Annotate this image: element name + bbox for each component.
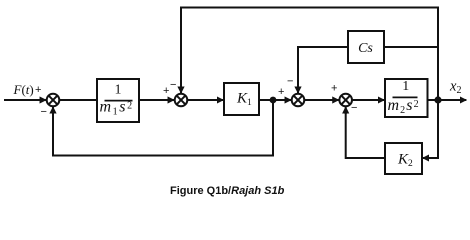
- svg-text:+: +: [331, 83, 337, 95]
- wire: arrow into S4 bottom: [345, 107, 347, 114]
- svg-text:1: 1: [115, 83, 122, 98]
- wire: Cs feedback left segment down into S3: [298, 47, 348, 90]
- wire: arrow into S1 bottom: [52, 107, 54, 114]
- node N2 (output): [434, 96, 441, 103]
- wire: outer feedback arrow into S2 top: [180, 86, 182, 93]
- svg-text:−: −: [41, 106, 47, 118]
- wire: outer feedback top horizontal: [181, 8, 438, 101]
- wire: input F(t) into summing junction S1: [4, 99, 46, 101]
- wire: m1s2 to summing junction S2: [139, 99, 174, 101]
- svg-text:+: +: [163, 85, 169, 97]
- wire: Cs feedback arrow into S3 top: [297, 86, 299, 93]
- svg-text:F(t): F(t): [13, 82, 34, 97]
- wire: inner feedback from node N1 down and left: [53, 100, 273, 156]
- svg-text:1: 1: [402, 79, 409, 94]
- wire: S4 to block m2s2: [353, 99, 385, 101]
- block m2s2: [385, 79, 428, 117]
- wire: S1 to block m1s2: [60, 99, 99, 101]
- svg-text:+: +: [278, 86, 284, 98]
- svg-text:−: −: [287, 76, 293, 88]
- node N1 (after K1): [270, 97, 277, 104]
- summing junction S4: [339, 94, 352, 107]
- summing junction S2: [175, 94, 188, 107]
- wire: arrow into K2 right edge: [423, 157, 430, 159]
- summing junction S3: [292, 94, 305, 107]
- svg-text:+: +: [35, 84, 41, 96]
- wire: output node N2 down to K2 row: [426, 100, 439, 158]
- wire: Cs feedback right segment from node vertical: [384, 46, 438, 48]
- svg-text:Cs: Cs: [358, 41, 373, 56]
- wire: K2 output up into S4 bottom: [346, 110, 385, 159]
- block K2: [385, 143, 422, 174]
- block m1s2: [97, 79, 139, 122]
- block Cs: [348, 31, 384, 63]
- svg-text:Figure Q1b/Rajah S1b: Figure Q1b/Rajah S1b: [170, 185, 285, 197]
- svg-text:−: −: [170, 79, 176, 91]
- wire: S2 to block K1: [188, 99, 224, 101]
- wire: S3 to summing junction S4: [305, 99, 339, 101]
- summing junction S1: [47, 94, 60, 107]
- wire: m2s2 to output x2 (through node N2): [428, 99, 467, 101]
- svg-text:−: −: [351, 102, 357, 114]
- wire: K1 to summing junction S3 (through node N1): [259, 99, 291, 101]
- block K1: [224, 83, 259, 115]
